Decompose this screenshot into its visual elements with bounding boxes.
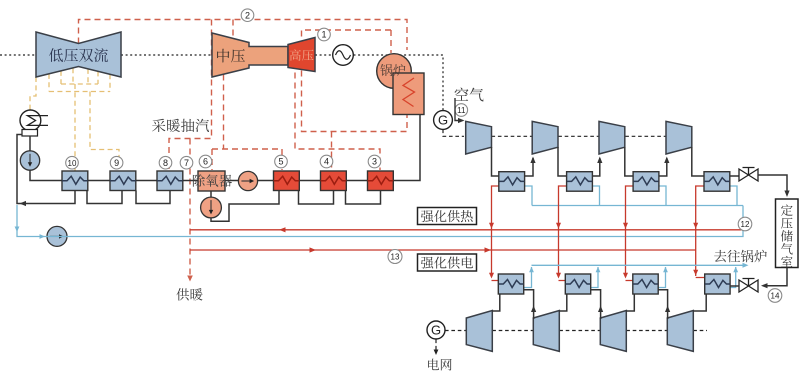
svg-text:1: 1 [321,30,326,40]
wire: heat network return blue line [17,186,743,237]
feedwater heater 5 [274,171,300,191]
HP turbine 高压 [288,38,315,72]
generator (sine circle) [333,45,354,66]
wire: extraction to heater 3 from HP exhaust [295,73,380,171]
pump on feedwater line [238,171,257,190]
compressor C1 [466,121,492,154]
svg-text:14: 14 [771,292,780,301]
wire: blue return risers (discharge train) [524,265,745,287]
heat network pump [47,226,67,246]
wire: air piping between expander stages [492,290,706,319]
svg-text:12: 12 [741,220,750,229]
node label 9 [110,156,123,169]
wire: LP exhaust to condenser [30,77,36,110]
valve (discharge) [739,280,758,292]
svg-text:9: 9 [114,158,119,168]
expansion turbine T2 [533,311,559,352]
svg-text:7: 7 [184,158,189,168]
node label 13 [388,250,402,264]
wire: to storage [758,175,787,194]
generator G2 [427,321,445,339]
intercooler IC2 [567,172,593,192]
wire: LP turbine extraction dashed lines (yellow) [30,68,119,171]
svg-text:13: 13 [391,253,400,262]
intercooler IC3 [633,172,659,192]
feedwater heater 8 [157,171,183,191]
intercooler IC4 [704,172,730,192]
label 采暖抽汽 [152,119,165,132]
node label 12 [738,217,752,231]
wire: heater drain cascade [136,191,170,204]
svg-text:8: 8 [163,158,168,168]
wire: dashed loop 1 (HP-boiler) [302,30,408,132]
intercooler IC1 [499,172,525,192]
node label 5 [275,155,288,168]
label box 强化供电 [418,254,477,271]
compressor C2 [532,121,558,154]
wire: enhanced power red line (强化供电) [190,249,696,251]
node label 1 [318,28,331,41]
wire: reheat steam dashed line 2 (LP/IP) [79,20,408,279]
condenser hotwell box [22,130,38,137]
wire: compressor shaft dashed [492,135,667,137]
feedwater heater 10 [62,171,88,191]
reheater RH1 [498,274,523,294]
svg-text:4: 4 [324,157,329,167]
svg-text:2: 2 [245,10,250,20]
IP turbine 中压 [212,33,288,77]
deaerator 除氧器 [198,171,225,191]
wire: enhanced heating red line (强化供热) [190,230,741,250]
svg-text:10: 10 [68,159,77,168]
wire: motor link dashed [443,130,464,137]
wire: turbine shaft dotted line [0,55,443,111]
feedwater heater 3 [368,171,394,191]
node label 14 [768,289,782,303]
node label 7 [180,156,193,169]
label 电网 [428,359,439,371]
node label 8 [159,156,172,169]
motor/generator G1 [434,111,453,130]
wire: air inlet [455,98,458,121]
svg-text:11: 11 [457,106,466,115]
svg-text:6: 6 [203,157,208,167]
node label 3 [368,155,381,168]
label box 强化供热 [418,208,477,225]
node label 4 [320,155,333,168]
reheater RH3 [633,274,658,294]
wire: extraction to heater 4 [331,132,333,171]
expansion turbine T4 [667,311,693,352]
wire: heating supply dashed line to 供暖 [189,139,191,279]
expansion turbine T1 [466,311,492,352]
LP turbine 低压双流 [36,32,121,77]
node label 10 [66,156,79,169]
wire: heating extraction dashed drop to deaerator region [169,20,212,170]
node label 6 [199,155,212,168]
valve (charge) [739,169,758,181]
constant-pressure air storage 定压储气室 [776,199,799,268]
feedwater heater 9 [110,171,136,191]
svg-text:5: 5 [278,157,283,167]
label 去往锅炉 [714,250,726,262]
boiler feed pump [201,197,222,218]
reheater RH2 [565,274,590,294]
wire: extraction to heater 5 / deaerator [212,75,282,171]
label 空气 [455,88,469,101]
svg-text:3: 3 [372,157,377,167]
wire: compressed air piping between stages [492,147,740,176]
node label 2 [241,9,254,22]
wire: storage discharge [763,268,787,286]
condensate pump [20,151,39,170]
expansion turbine T3 [600,311,626,352]
wire: condensate main line [17,115,420,222]
label 供暖 [176,288,189,300]
boiler 锅炉 [377,54,412,89]
compressor C3 [599,121,625,154]
wire: red hot water columns (storage train) [492,186,705,281]
node label 11 [455,104,468,117]
feedwater heater 4 [321,171,347,191]
condenser circle with coil [20,110,41,131]
compressor C4 [666,121,692,154]
svg-text:G: G [438,113,448,128]
reheater RH4 [705,274,730,294]
wire: turbine shaft dashed (bottom) [436,331,707,353]
svg-text:G: G [431,323,441,338]
